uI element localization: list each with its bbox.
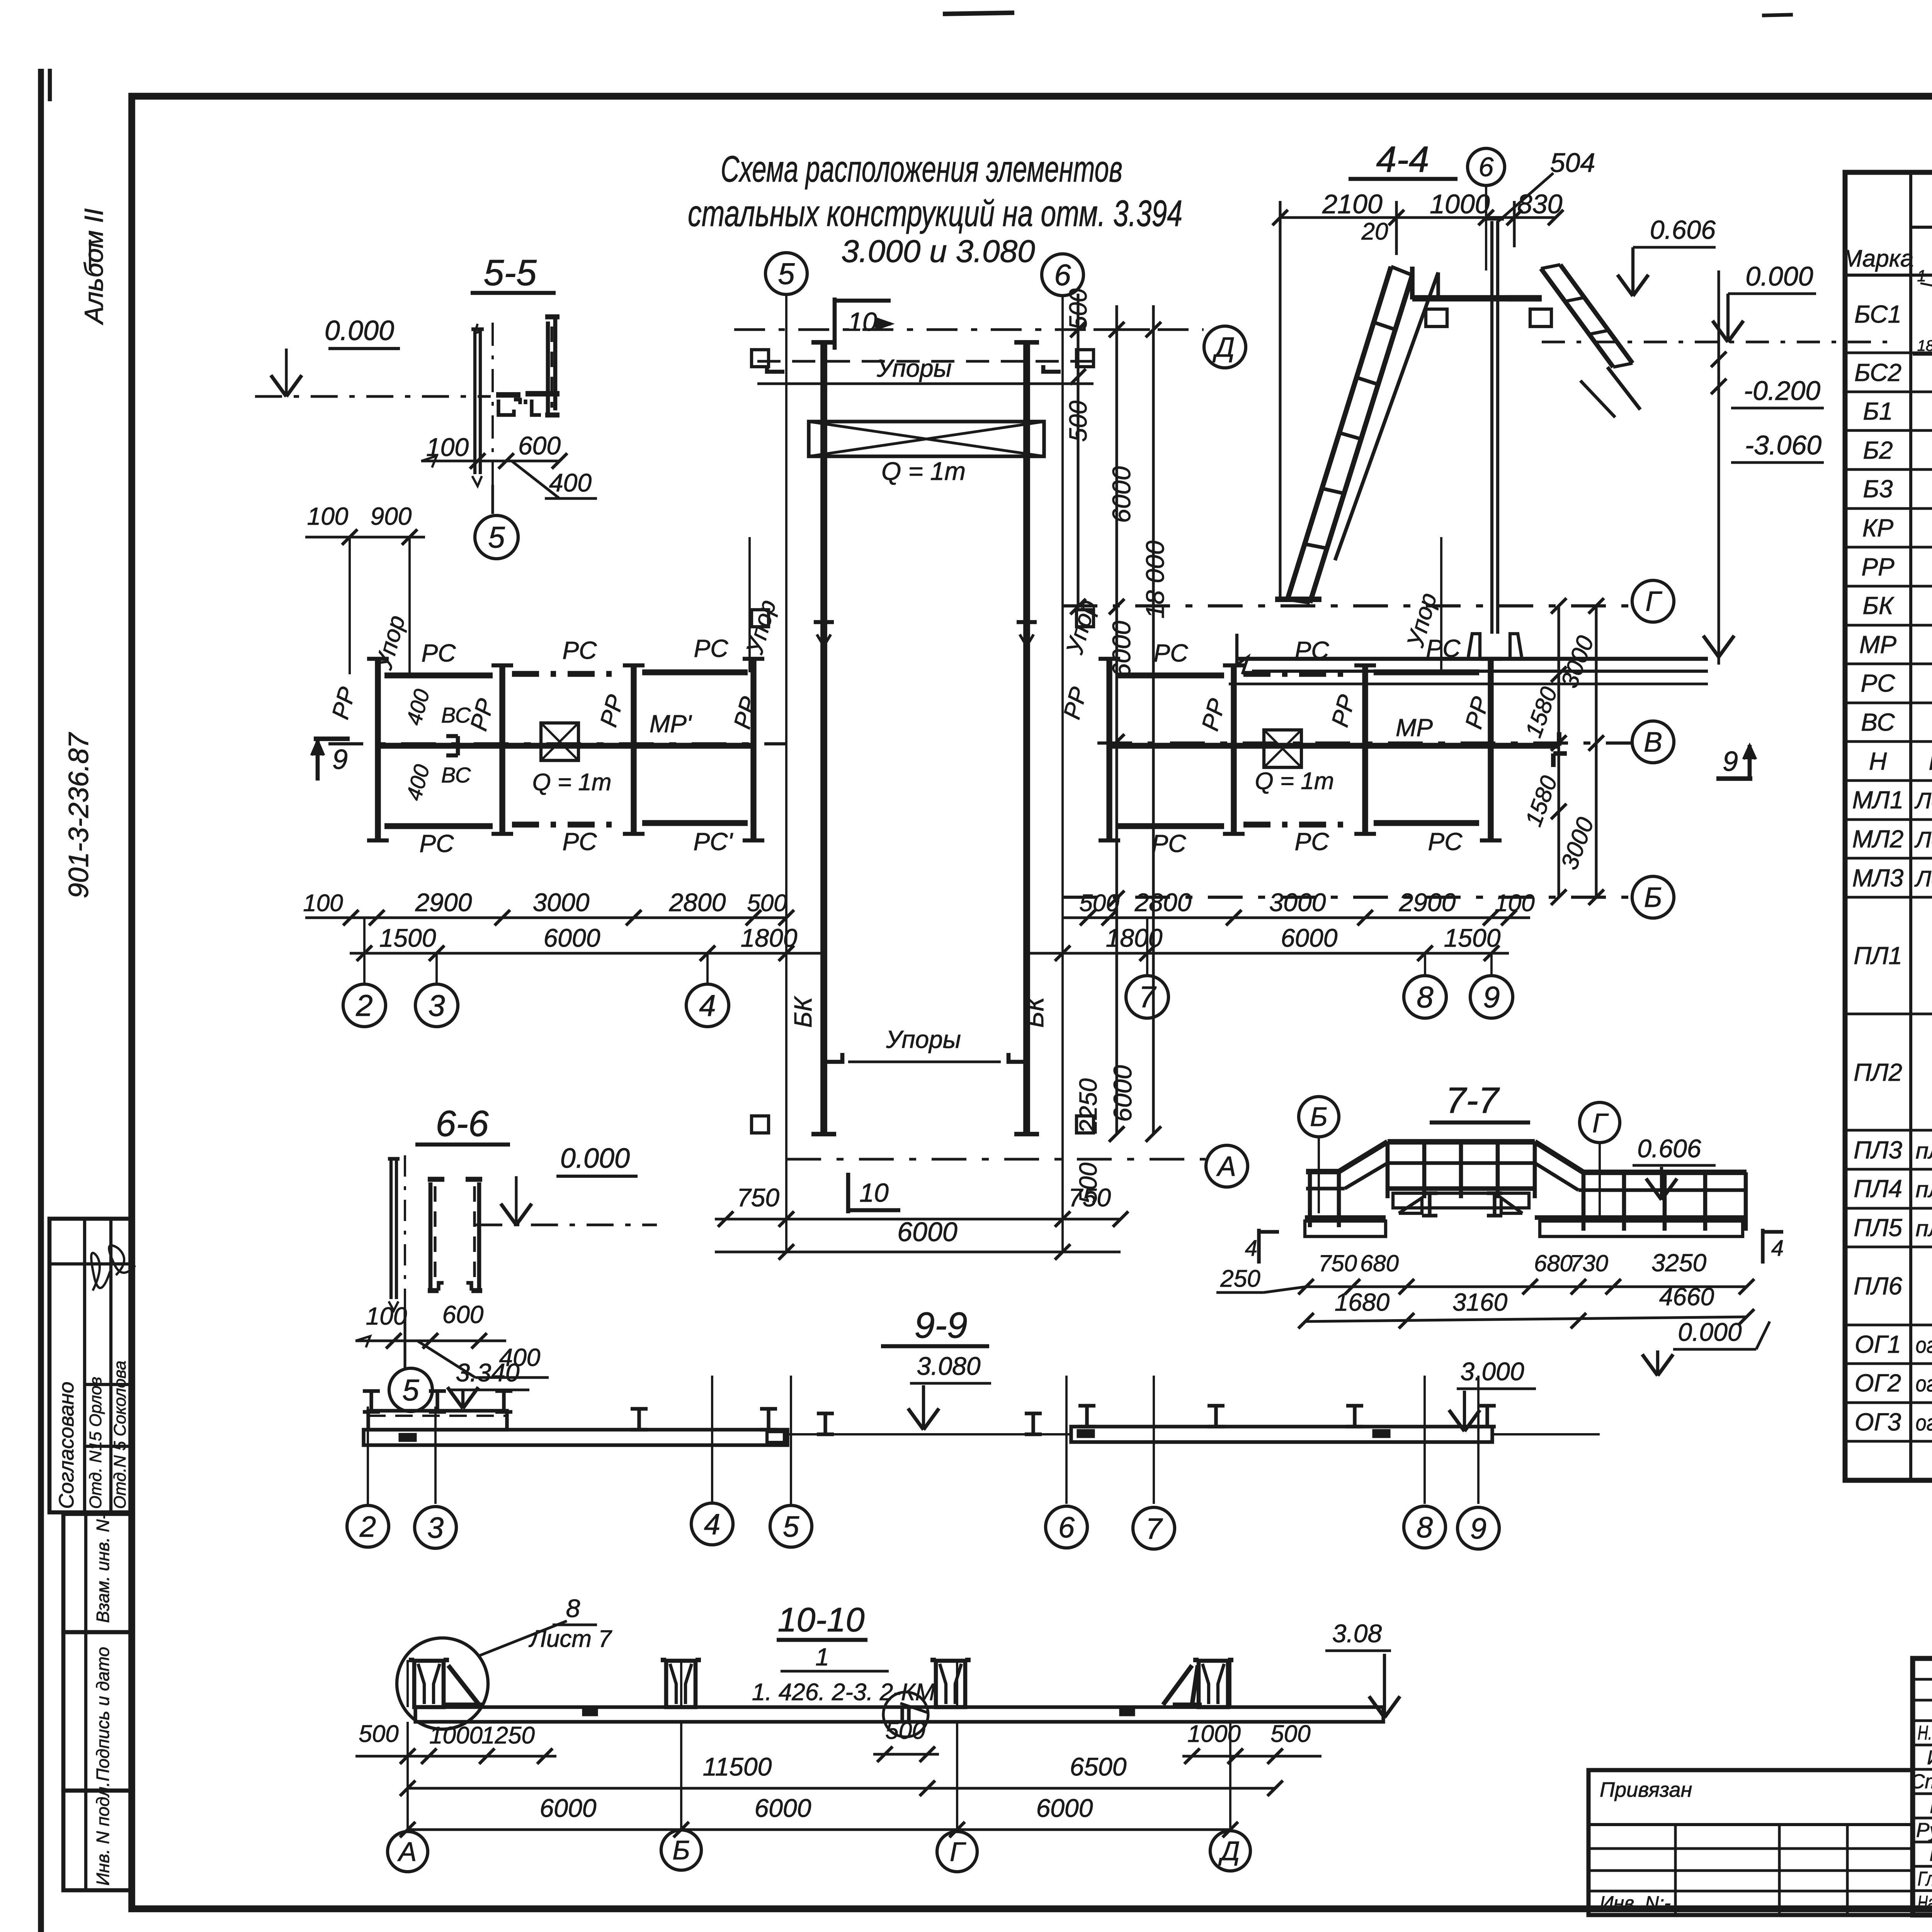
view 9-9 grid circle 2 <box>347 1505 389 1547</box>
view 4-4 ladder handrail <box>1335 272 1438 560</box>
svg-text:площадка: площадка <box>1916 1138 1932 1163</box>
svg-text:8: 8 <box>1417 1511 1433 1544</box>
view 4-4 top dim line <box>1280 216 1556 219</box>
svg-text:9: 9 <box>1470 1512 1486 1545</box>
left plan column 2 beam <box>375 659 381 840</box>
view 10-10 small plates <box>583 1709 597 1715</box>
svg-text:3000: 3000 <box>533 888 590 917</box>
view 7-7 grid circle Г <box>1580 1102 1620 1143</box>
view 5-5 small channel b <box>524 400 527 404</box>
view 4-4 right short ladder <box>1541 269 1613 367</box>
strip angle symbols bottom <box>827 1053 842 1062</box>
left stamp cell Инв N подл <box>63 1791 132 1890</box>
svg-text:500: 500 <box>1270 1721 1310 1747</box>
view 5-5 upor leader lines <box>349 537 351 674</box>
right plan grid circle 7 <box>1146 918 1148 976</box>
svg-text:6: 6 <box>1054 258 1071 292</box>
svg-text:11500: 11500 <box>703 1752 772 1781</box>
svg-text:Альбом II: Альбом II <box>79 208 109 325</box>
right plan axis В line <box>1097 742 1631 745</box>
view 7-7 section flag 4 left <box>1257 1229 1260 1264</box>
svg-text:0.000: 0.000 <box>1745 261 1813 291</box>
view 10-10 beam <box>415 1707 1383 1722</box>
svg-text:Согласовано: Согласовано <box>55 1382 78 1509</box>
svg-text:6: 6 <box>1479 152 1494 182</box>
svg-text:РС: РС <box>1426 634 1461 662</box>
svg-text:901-3-236.87: 901-3-236.87 <box>63 732 94 898</box>
svg-text:Настил: Настил <box>1929 750 1932 775</box>
view 10-10 column shoes <box>414 1661 444 1707</box>
svg-text:7: 7 <box>1146 1512 1163 1545</box>
view 9-9 grid verticals <box>367 1406 369 1504</box>
svg-text:7-7: 7-7 <box>1446 1080 1500 1121</box>
svg-text:3.340: 3.340 <box>456 1358 519 1387</box>
view 9-9 grid circle 9 <box>1458 1507 1499 1549</box>
left plan РС beams bottom <box>384 823 493 829</box>
svg-text:500: 500 <box>1064 288 1092 330</box>
view 5-5 small channel a <box>498 400 514 415</box>
svg-text:1: 1 <box>815 1643 829 1671</box>
svg-text:6000: 6000 <box>544 923 600 952</box>
svg-text:10-10: 10-10 <box>777 1600 864 1639</box>
svg-text:6000: 6000 <box>1281 923 1338 952</box>
svg-text:БК: БК <box>789 996 817 1028</box>
svg-text:Б: Б <box>672 1835 690 1865</box>
strip upper upory line <box>757 382 1094 385</box>
svg-text:6000: 6000 <box>540 1794 597 1822</box>
view 7-7 right deck <box>1535 1215 1747 1220</box>
svg-text:500: 500 <box>1074 1162 1102 1204</box>
svg-text:750: 750 <box>737 1183 779 1212</box>
svg-text:5: 5 <box>488 520 505 554</box>
svg-text:РС: РС <box>694 634 729 662</box>
svg-text:2900: 2900 <box>415 888 472 917</box>
svg-text:Б2: Б2 <box>1863 436 1893 464</box>
right plan МР beam <box>1109 743 1559 748</box>
svg-text:180: 180 <box>1917 337 1932 354</box>
right plan grid circle 9 <box>1490 953 1493 976</box>
svg-text:6000: 6000 <box>1108 1065 1137 1122</box>
view 5-5 grid circle 5 <box>475 515 518 559</box>
table header lines <box>1911 226 1932 229</box>
view 10-10 label 1.426.2-3.2-КМ <box>781 1670 889 1672</box>
strip angle symbol left top <box>767 365 784 372</box>
right plan МР end bracket <box>1557 732 1561 746</box>
right plan grid circle Г <box>1632 580 1674 622</box>
svg-text:2800: 2800 <box>1134 888 1192 917</box>
svg-text:1000: 1000 <box>1430 189 1490 219</box>
view 7-7 grid circle Б <box>1299 1097 1339 1137</box>
svg-text:8: 8 <box>566 1594 580 1622</box>
svg-text:6000: 6000 <box>1107 466 1136 523</box>
svg-text:РС': РС' <box>693 828 733 855</box>
svg-text:Взам. инв. N-: Взам. инв. N- <box>93 1514 113 1623</box>
svg-text:БС1: БС1 <box>1854 300 1901 328</box>
svg-text:Д: Д <box>1218 1836 1240 1866</box>
svg-text:Б1: Б1 <box>1863 397 1893 425</box>
svg-text:ограждение: ограждение <box>1916 1371 1932 1396</box>
strip angle symbol right top <box>1043 365 1061 372</box>
svg-text:2: 2 <box>359 1510 376 1543</box>
svg-text:250: 250 <box>1220 1265 1260 1292</box>
right plan grid circle В <box>1632 721 1674 763</box>
svg-text:2100: 2100 <box>1322 189 1383 219</box>
svg-text:стальных конструкций на отм: стальных конструкций на отм. 3.394 <box>688 193 1182 234</box>
svg-text:площадка: площадка <box>1916 1216 1932 1241</box>
strip axis Д line <box>734 328 1151 331</box>
right plan РС beams top <box>1116 672 1224 678</box>
strip axis А line <box>786 1158 1206 1160</box>
strip axis 6 vertical <box>1061 296 1064 1251</box>
view 6-6 grid circle 5 <box>389 1368 432 1412</box>
svg-text:ограждение: ограждение <box>1916 1333 1932 1358</box>
svg-text:РР: РР <box>1861 553 1895 581</box>
svg-text:РС: РС <box>1295 828 1330 855</box>
grid circle А strip <box>1206 1145 1248 1187</box>
view 9-9 level line mid <box>787 1433 1071 1435</box>
svg-text:ограждение: ограждение <box>1916 1410 1932 1435</box>
svg-text:Лестница: Лестница <box>1914 788 1932 813</box>
view 4-4 ladder МЛ <box>1287 267 1391 599</box>
svg-text:3160: 3160 <box>1452 1288 1508 1316</box>
stamp signatures squiggles <box>91 1253 110 1291</box>
svg-text:Д: Д <box>1213 332 1235 363</box>
title block signature rows <box>1913 1744 1932 1747</box>
svg-text:0.606: 0.606 <box>1650 215 1716 245</box>
svg-text:МР: МР <box>1396 714 1433 742</box>
svg-text:1800: 1800 <box>741 923 798 952</box>
left plan grid circle 2 <box>363 918 366 984</box>
right plan column 9 beam <box>1488 659 1493 840</box>
view 6-6 column lines <box>389 1160 393 1299</box>
svg-text:РС: РС <box>563 828 597 855</box>
svg-text:3.08: 3.08 <box>1332 1619 1382 1648</box>
svg-text:РС: РС <box>420 830 454 857</box>
svg-text:600: 600 <box>442 1301 484 1328</box>
svg-text:2800: 2800 <box>669 888 726 917</box>
view 9-9 right beam <box>1071 1427 1492 1442</box>
view 10-10 braces <box>448 1665 479 1705</box>
svg-text:500: 500 <box>1064 400 1092 442</box>
view 7-7 mid rails <box>1388 1161 1535 1165</box>
svg-text:1000: 1000 <box>1187 1721 1241 1747</box>
svg-text:504: 504 <box>1550 148 1595 178</box>
svg-text:ПЛ2: ПЛ2 <box>1854 1058 1902 1086</box>
svg-text:100: 100 <box>303 890 343 917</box>
strip small squares row 2 <box>752 610 769 627</box>
view 5-5 column lines <box>473 330 476 474</box>
svg-text:1500: 1500 <box>379 923 436 952</box>
svg-text:ВС: ВС <box>441 763 471 787</box>
svg-text:900: 900 <box>371 502 412 530</box>
svg-text:600: 600 <box>518 431 561 460</box>
right plan vertical dims 3000 1580 <box>1557 606 1560 897</box>
svg-text:1000: 1000 <box>429 1722 483 1749</box>
view 4-4 small brackets on deck <box>1426 309 1447 327</box>
svg-text:ГИП: ГИП <box>1929 1843 1932 1866</box>
view 4-4 right level line <box>1717 270 1720 665</box>
svg-text:3000: 3000 <box>1269 888 1326 917</box>
view 7-7 posts left <box>1308 1172 1312 1227</box>
view 7-7 section flag 4 right <box>1761 1229 1764 1264</box>
view 10-10 grid circle Г <box>937 1832 977 1872</box>
svg-text:0.606: 0.606 <box>1637 1134 1701 1163</box>
right plan section 9 mark <box>1716 776 1752 781</box>
strip lower upory line <box>848 1060 1001 1063</box>
table column lines <box>1909 172 1912 1480</box>
svg-text:Отд. N15 Орлов: Отд. N15 Орлов <box>86 1377 105 1509</box>
svg-text:Г: Г <box>1645 586 1662 617</box>
left plan column 3 beam <box>499 665 505 834</box>
left stamp cell Взам.инв.N <box>63 1514 132 1632</box>
svg-text:5: 5 <box>402 1373 419 1407</box>
left plan МР beam <box>377 743 753 748</box>
svg-text:20: 20 <box>1361 218 1388 245</box>
svg-text:Г: Г <box>1592 1108 1609 1138</box>
svg-text:Упоры: Упоры <box>876 354 952 382</box>
svg-text:5: 5 <box>778 257 795 291</box>
right plan axis Д leader <box>1094 328 1204 331</box>
strip axis 5 vertical <box>785 294 787 1251</box>
right plan X-box <box>1264 730 1301 767</box>
svg-text:Нач. отд.: Нач. отд. <box>1918 1892 1932 1914</box>
svg-text:0.000: 0.000 <box>1678 1318 1742 1346</box>
svg-text:10: 10 <box>848 307 877 337</box>
view 7-7 right slope rail <box>1535 1142 1583 1172</box>
svg-text:РС: РС <box>1152 830 1187 857</box>
svg-text:А: А <box>397 1837 417 1867</box>
left plan grid circle 3 <box>435 953 438 984</box>
svg-text:Лестница: Лестница <box>1914 827 1932 852</box>
svg-text:РС: РС <box>422 639 456 667</box>
left stamp cell Подпись и дата <box>63 1632 132 1791</box>
svg-text:9: 9 <box>1723 746 1738 777</box>
right plan grid circle Д <box>1204 326 1246 368</box>
svg-text:6000: 6000 <box>1036 1794 1093 1822</box>
view 4-4 platform beam <box>1412 295 1542 302</box>
view 4-4 ladder foot <box>1275 597 1321 602</box>
left plan РС beams top <box>384 672 493 678</box>
svg-text:Q = 1т: Q = 1т <box>1255 768 1334 794</box>
svg-text:9: 9 <box>332 744 348 775</box>
svg-text:РС: РС <box>1295 636 1330 664</box>
left plan column beam mid <box>631 665 636 834</box>
table outer border <box>1845 172 1932 1480</box>
view 9-9 floating I symbols <box>631 1407 648 1410</box>
svg-text:ПЛ3: ПЛ3 <box>1854 1136 1902 1164</box>
svg-text:площадка: площадка <box>1916 1177 1932 1202</box>
svg-text:2: 2 <box>355 988 372 1022</box>
svg-text:МЛ3: МЛ3 <box>1852 864 1904 892</box>
left plan column 4 beam <box>750 659 756 840</box>
svg-text:400: 400 <box>549 468 592 497</box>
svg-text:Q = 1т: Q = 1т <box>532 769 611 796</box>
svg-text:-3.060: -3.060 <box>1745 430 1822 460</box>
svg-text:6-6: 6-6 <box>435 1103 488 1144</box>
svg-text:3.000: 3.000 <box>1460 1357 1524 1386</box>
svg-text:Инв. N подл.: Инв. N подл. <box>93 1782 113 1886</box>
svg-text:3.080: 3.080 <box>917 1352 980 1380</box>
svg-text:ОГ1: ОГ1 <box>1855 1330 1901 1358</box>
svg-text:750: 750 <box>1318 1250 1357 1276</box>
view 10-10 grid circle А <box>388 1832 428 1872</box>
right plan РС beams bottom <box>1116 823 1224 829</box>
svg-text:500: 500 <box>359 1721 398 1747</box>
right plan column 7 beam <box>1106 659 1112 840</box>
view 10-10 grid circle Б <box>661 1830 701 1870</box>
svg-text:6500: 6500 <box>1070 1752 1127 1781</box>
svg-text:ОГ2: ОГ2 <box>1855 1369 1901 1397</box>
svg-text:1500: 1500 <box>1444 923 1501 952</box>
right plan column beam c <box>1362 665 1368 834</box>
svg-text:830: 830 <box>1517 189 1563 219</box>
view 9-9 left beam <box>364 1430 787 1445</box>
view 5-5 upper flange <box>496 392 520 398</box>
svg-text:РС: РС <box>1428 828 1463 855</box>
right plan grid circle Б <box>1632 876 1674 918</box>
svg-text:Б: Б <box>1644 882 1662 913</box>
view 7-7 middle deck <box>1388 1186 1535 1191</box>
svg-text:6000: 6000 <box>897 1217 957 1247</box>
view 7-7 posts right <box>1582 1172 1586 1231</box>
view 9-9 right beam I-symbols <box>1078 1404 1095 1407</box>
strip beam 6 (БК) <box>1023 342 1030 1134</box>
right plan column beam b <box>1231 665 1236 834</box>
view 5-5 dim line <box>421 459 560 462</box>
view 9-9 grid circle 4 <box>691 1503 733 1545</box>
left stamp table (Согласовано) <box>49 1219 132 1512</box>
svg-text:9: 9 <box>1483 980 1500 1014</box>
view 9-9 grid circle 6 <box>1046 1506 1087 1548</box>
view 5-5 tall channel <box>546 321 550 415</box>
left plan angle details near axis <box>446 734 458 738</box>
svg-text:ПЛ1: ПЛ1 <box>1854 942 1902 969</box>
strip grid circle 6 <box>1042 254 1083 296</box>
svg-text:РС: РС <box>563 636 597 664</box>
section flag 10 top <box>833 298 837 350</box>
svg-text:3: 3 <box>427 1512 444 1544</box>
svg-text:Лестница: Лестница <box>1914 866 1932 891</box>
view 7-7 left slope rail <box>1339 1142 1388 1172</box>
view 10-10 grid verticals <box>406 1722 409 1831</box>
svg-text:2900: 2900 <box>1399 888 1456 917</box>
svg-text:БК: БК <box>1862 592 1895 619</box>
svg-text:5: 5 <box>783 1510 799 1543</box>
svg-text:3.000 и 3.080: 3.000 и 3.080 <box>841 234 1035 269</box>
svg-text:500: 500 <box>747 890 787 917</box>
svg-text:РС: РС <box>1154 639 1189 667</box>
view 9-9 grid circle 3 <box>415 1507 456 1548</box>
svg-text:В: В <box>1644 727 1662 758</box>
view 7-7 deck brackets <box>1399 1198 1422 1213</box>
svg-text:Отд.N 5 Соколова: Отд.N 5 Соколова <box>111 1361 129 1509</box>
svg-text:МЛ2: МЛ2 <box>1852 825 1904 853</box>
view 6-6 channel section <box>429 1182 433 1291</box>
view 6-6 leader to circle <box>403 1310 406 1368</box>
svg-text:2250: 2250 <box>1074 1078 1102 1134</box>
svg-text:ПЛ4: ПЛ4 <box>1854 1175 1902 1202</box>
svg-text:БК: БК <box>1021 996 1049 1028</box>
svg-text:МР: МР <box>1859 631 1896 658</box>
view 5-5 leader to grid circle 5 <box>491 485 494 514</box>
svg-text:Инж.: Инж. <box>1927 1747 1932 1769</box>
svg-text:Инж: Инж <box>1930 1795 1932 1818</box>
view 6-6 dim line <box>355 1339 506 1342</box>
svg-text:1: 1 <box>1917 267 1926 285</box>
svg-text:680: 680 <box>1534 1250 1573 1276</box>
svg-text:100: 100 <box>366 1302 407 1330</box>
svg-text:9-9: 9-9 <box>914 1305 967 1346</box>
svg-text:7: 7 <box>1139 980 1156 1014</box>
top edge scan marks <box>943 13 1014 14</box>
svg-text:МР': МР' <box>650 710 692 738</box>
svg-text:1680: 1680 <box>1335 1288 1390 1316</box>
svg-text:Привязан: Привязан <box>1600 1778 1692 1801</box>
view 7-7 posts middle <box>1386 1142 1390 1198</box>
svg-text:А: А <box>1216 1151 1236 1182</box>
svg-text:680: 680 <box>1360 1250 1399 1276</box>
svg-text:0.000: 0.000 <box>325 315 394 346</box>
view 9-9 left upper channel <box>368 1411 507 1430</box>
left plan axis Д extension <box>734 328 757 331</box>
svg-text:3250: 3250 <box>1651 1249 1707 1277</box>
strip small squares row 1 <box>752 350 769 367</box>
svg-text:Инв. N:-: Инв. N:- <box>1600 1892 1671 1914</box>
strip beam 5 (БК) <box>820 342 827 1134</box>
svg-text:Н: Н <box>1869 747 1887 775</box>
svg-text:ПЛ6: ПЛ6 <box>1854 1272 1902 1300</box>
svg-text:0.000: 0.000 <box>560 1143 630 1174</box>
svg-text:БС2: БС2 <box>1854 359 1901 386</box>
svg-text:Н.Контр.: Н.Контр. <box>1918 1722 1932 1744</box>
strip right dim verticals <box>1077 294 1079 607</box>
view 10-10 grid circle Д <box>1210 1831 1250 1871</box>
view 9-9 grid circle 8 <box>1404 1506 1446 1548</box>
svg-text:100: 100 <box>307 502 349 530</box>
svg-text:4-4: 4-4 <box>1376 139 1429 180</box>
svg-text:ПЛ5: ПЛ5 <box>1854 1214 1902 1242</box>
svg-text:ВС: ВС <box>441 703 471 727</box>
view 10-10 mid joint <box>900 1707 904 1722</box>
svg-text:730: 730 <box>1570 1250 1608 1276</box>
view 9-9 grid circle 7 <box>1133 1507 1175 1549</box>
svg-text:ОГ3: ОГ3 <box>1855 1408 1901 1436</box>
strip crane plate X-box <box>809 422 1044 456</box>
svg-text:Г: Г <box>950 1837 966 1867</box>
privyazan table <box>1588 1770 1913 1915</box>
svg-text:Подпись и дато: Подпись и дато <box>93 1647 113 1781</box>
view 9-9 left beam I-symbols <box>363 1389 380 1393</box>
scan left edge line <box>38 69 44 1932</box>
title block small top rows <box>1913 1678 1932 1681</box>
svg-text:10: 10 <box>859 1178 889 1207</box>
view 4-4 column pair <box>1490 221 1493 634</box>
svg-text:Гл.спец.: Гл.спец. <box>1918 1868 1932 1890</box>
svg-text:1250: 1250 <box>481 1722 535 1749</box>
view 9-9 grid circle 5 <box>770 1505 812 1547</box>
left plan grid circle 4 <box>706 953 709 984</box>
svg-text:Марка: Марка <box>1842 245 1913 272</box>
strip grid circle 5 <box>765 253 807 294</box>
view 4-4 ground line <box>1237 657 1708 661</box>
svg-text:500: 500 <box>885 1718 925 1744</box>
svg-text:МЛ1: МЛ1 <box>1852 786 1904 814</box>
svg-text:4660: 4660 <box>1659 1283 1714 1311</box>
svg-text:4: 4 <box>1245 1236 1257 1261</box>
right plan axis Г line <box>1063 604 1631 607</box>
svg-text:Б: Б <box>1310 1102 1328 1132</box>
right plan grid circle 8 <box>1424 953 1426 976</box>
